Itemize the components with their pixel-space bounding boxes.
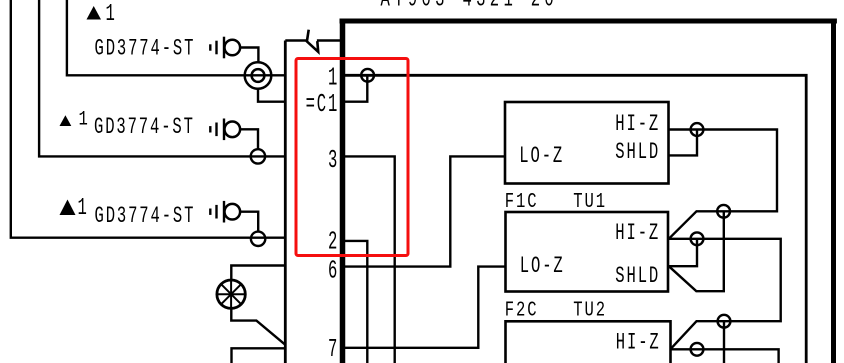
svg-text:2: 2	[328, 228, 339, 257]
svg-text:1: 1	[79, 109, 90, 132]
svg-text:LO-Z: LO-Z	[520, 253, 565, 279]
svg-text:HI-Z: HI-Z	[615, 220, 660, 246]
svg-text:6: 6	[328, 257, 339, 286]
svg-text:LO-Z: LO-Z	[519, 143, 564, 169]
svg-text:SHLD: SHLD	[615, 263, 660, 289]
svg-text:AT903-4321-20: AT903-4321-20	[381, 0, 559, 14]
svg-text:1: 1	[78, 195, 89, 222]
svg-text:TU1: TU1	[573, 190, 607, 214]
svg-text:TU2: TU2	[573, 298, 607, 322]
svg-text:GD3774-ST: GD3774-ST	[95, 35, 196, 62]
svg-text:GD3774-ST: GD3774-ST	[94, 113, 195, 140]
svg-text:GD3774-ST: GD3774-ST	[95, 202, 196, 229]
svg-text:1: 1	[106, 1, 117, 28]
svg-text:1: 1	[328, 64, 339, 93]
svg-text:3: 3	[328, 146, 339, 175]
svg-text:F2C: F2C	[505, 298, 539, 322]
svg-text:HI-Z: HI-Z	[616, 330, 661, 356]
svg-text:SHLD: SHLD	[615, 139, 660, 165]
svg-text:F1C: F1C	[505, 190, 539, 214]
svg-text:=C1: =C1	[306, 90, 340, 119]
svg-text:7: 7	[328, 335, 339, 363]
svg-text:HI-Z: HI-Z	[615, 111, 660, 137]
